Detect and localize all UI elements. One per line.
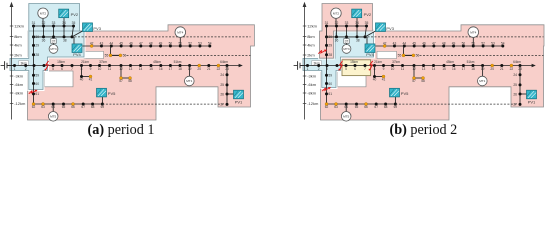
svg-text:66: 66 xyxy=(71,105,75,109)
svg-text:-12km: -12km xyxy=(307,101,319,106)
svg-text:55: 55 xyxy=(398,54,402,58)
svg-text:6: 6 xyxy=(354,67,356,71)
svg-text:59: 59 xyxy=(35,74,39,78)
svg-text:52: 52 xyxy=(188,41,192,45)
svg-text:48: 48 xyxy=(149,41,153,45)
svg-text:MT5: MT5 xyxy=(343,114,349,118)
svg-text:54: 54 xyxy=(208,41,212,45)
svg-text:28: 28 xyxy=(35,53,39,57)
svg-text:49: 49 xyxy=(159,41,163,45)
svg-text:43: 43 xyxy=(393,41,397,45)
svg-text:MT3: MT3 xyxy=(343,47,349,51)
svg-text:45km: 45km xyxy=(446,60,454,64)
svg-text:6: 6 xyxy=(61,67,63,71)
svg-text:24: 24 xyxy=(220,73,224,77)
svg-text:68: 68 xyxy=(91,105,95,109)
svg-text:64km: 64km xyxy=(513,60,521,64)
svg-text:5: 5 xyxy=(52,67,54,71)
svg-text:51: 51 xyxy=(471,41,475,45)
svg-text:35: 35 xyxy=(72,21,76,25)
svg-text:-12km: -12km xyxy=(14,101,26,106)
svg-text:31: 31 xyxy=(32,21,36,25)
svg-text:36: 36 xyxy=(42,39,46,43)
svg-text:64: 64 xyxy=(51,105,55,109)
svg-text:37: 37 xyxy=(52,40,56,44)
svg-text:8km: 8km xyxy=(14,34,22,39)
svg-text:42: 42 xyxy=(90,41,94,45)
svg-text:49: 49 xyxy=(452,41,456,45)
svg-text:44: 44 xyxy=(403,41,407,45)
svg-text:53: 53 xyxy=(198,41,202,45)
svg-text:61: 61 xyxy=(35,92,39,96)
svg-text:30: 30 xyxy=(328,35,332,39)
svg-text:62: 62 xyxy=(325,105,329,109)
svg-text:7: 7 xyxy=(71,67,73,71)
svg-text:69: 69 xyxy=(101,105,105,109)
svg-text:59: 59 xyxy=(328,74,332,78)
svg-text:54: 54 xyxy=(501,41,505,45)
svg-text:55: 55 xyxy=(105,54,109,58)
svg-text:3: 3 xyxy=(33,67,35,71)
svg-text:25: 25 xyxy=(513,83,517,87)
svg-text:34: 34 xyxy=(62,21,66,25)
svg-text:7: 7 xyxy=(364,67,366,71)
svg-text:10: 10 xyxy=(98,67,102,71)
svg-text:2km: 2km xyxy=(14,52,22,57)
svg-text:45: 45 xyxy=(119,41,123,45)
svg-text:31: 31 xyxy=(325,21,329,25)
svg-text:13: 13 xyxy=(422,67,426,71)
svg-text:43: 43 xyxy=(100,41,104,45)
svg-text:69: 69 xyxy=(394,105,398,109)
svg-text:2: 2 xyxy=(318,67,320,71)
svg-text:-6km: -6km xyxy=(307,82,317,87)
svg-text:PV3: PV3 xyxy=(386,26,394,31)
svg-text:67: 67 xyxy=(374,105,378,109)
svg-text:26: 26 xyxy=(513,92,517,96)
svg-text:13: 13 xyxy=(129,67,133,71)
svg-text:45km: 45km xyxy=(153,60,161,64)
svg-text:18: 18 xyxy=(471,67,475,71)
svg-text:MT2: MT2 xyxy=(40,11,46,15)
svg-text:37km: 37km xyxy=(392,60,400,64)
svg-text:PV1: PV1 xyxy=(528,100,536,105)
svg-text:21: 21 xyxy=(500,67,504,71)
svg-text:PV3: PV3 xyxy=(93,26,101,31)
svg-text:27: 27 xyxy=(513,103,517,107)
svg-text:51km: 51km xyxy=(467,60,475,64)
svg-text:15: 15 xyxy=(149,67,153,71)
svg-text:50: 50 xyxy=(169,41,173,45)
svg-text:62: 62 xyxy=(32,105,36,109)
svg-text:MT1: MT1 xyxy=(186,79,192,83)
svg-text:45: 45 xyxy=(412,41,416,45)
svg-text:9: 9 xyxy=(383,67,385,71)
svg-text:57: 57 xyxy=(412,79,416,83)
svg-text:(b) period 2: (b) period 2 xyxy=(390,122,458,138)
svg-text:PV4: PV4 xyxy=(366,52,374,57)
svg-text:60: 60 xyxy=(35,82,39,86)
svg-text:30: 30 xyxy=(35,35,39,39)
svg-text:2: 2 xyxy=(25,67,27,71)
svg-text:47: 47 xyxy=(432,41,436,45)
svg-text:25: 25 xyxy=(220,83,224,87)
svg-text:MT1: MT1 xyxy=(479,79,485,83)
svg-text:38: 38 xyxy=(63,39,67,43)
svg-text:MT4: MT4 xyxy=(177,30,183,34)
svg-text:15km: 15km xyxy=(350,60,358,64)
svg-text:44: 44 xyxy=(110,41,114,45)
svg-text:17: 17 xyxy=(169,67,173,71)
svg-text:34: 34 xyxy=(355,21,359,25)
svg-text:21km: 21km xyxy=(81,60,89,64)
svg-text:37km: 37km xyxy=(99,60,107,64)
svg-text:38: 38 xyxy=(356,39,360,43)
svg-text:PV1: PV1 xyxy=(235,100,243,105)
svg-text:4km: 4km xyxy=(14,42,22,47)
svg-text:36: 36 xyxy=(335,39,339,43)
svg-text:MT3: MT3 xyxy=(50,47,56,51)
svg-text:24: 24 xyxy=(513,73,517,77)
svg-text:50: 50 xyxy=(462,41,466,45)
svg-text:MT5: MT5 xyxy=(50,114,56,118)
svg-text:26: 26 xyxy=(220,92,224,96)
svg-text:65: 65 xyxy=(355,105,359,109)
svg-text:PV4: PV4 xyxy=(73,52,81,57)
svg-text:66: 66 xyxy=(364,105,368,109)
svg-text:-6km: -6km xyxy=(14,82,24,87)
svg-text:40: 40 xyxy=(373,77,377,81)
svg-text:56: 56 xyxy=(123,54,127,58)
svg-text:58: 58 xyxy=(421,79,425,83)
svg-text:33: 33 xyxy=(52,21,56,25)
svg-text:22: 22 xyxy=(217,67,221,71)
svg-text:PV2: PV2 xyxy=(364,12,372,17)
svg-text:56: 56 xyxy=(416,54,420,58)
svg-text:11: 11 xyxy=(108,67,112,71)
svg-text:47: 47 xyxy=(139,41,143,45)
svg-text:20: 20 xyxy=(197,67,201,71)
svg-text:3: 3 xyxy=(326,67,328,71)
svg-text:37: 37 xyxy=(345,40,349,44)
svg-text:61: 61 xyxy=(328,92,332,96)
svg-text:-3km: -3km xyxy=(307,73,317,78)
svg-text:57: 57 xyxy=(119,79,123,83)
svg-text:12km: 12km xyxy=(14,23,24,28)
svg-text:29: 29 xyxy=(328,44,332,48)
svg-text:28: 28 xyxy=(328,53,332,57)
svg-text:33: 33 xyxy=(345,21,349,25)
svg-text:-8km: -8km xyxy=(307,90,317,95)
svg-text:MT4: MT4 xyxy=(470,30,476,34)
svg-text:5: 5 xyxy=(345,67,347,71)
svg-text:51: 51 xyxy=(178,41,182,45)
svg-text:1: 1 xyxy=(14,67,16,71)
svg-text:-8km: -8km xyxy=(14,90,24,95)
svg-text:32: 32 xyxy=(42,21,46,25)
svg-text:48: 48 xyxy=(442,41,446,45)
svg-text:15km: 15km xyxy=(57,60,65,64)
svg-text:14: 14 xyxy=(432,67,436,71)
svg-text:17: 17 xyxy=(462,67,466,71)
svg-text:16: 16 xyxy=(452,67,456,71)
svg-text:63: 63 xyxy=(334,105,338,109)
svg-text:21km: 21km xyxy=(374,60,382,64)
svg-text:68: 68 xyxy=(384,105,388,109)
svg-text:60: 60 xyxy=(328,82,332,86)
svg-text:53: 53 xyxy=(491,41,495,45)
svg-text:64km: 64km xyxy=(220,60,228,64)
svg-text:11: 11 xyxy=(401,67,405,71)
svg-text:MT2: MT2 xyxy=(333,11,339,15)
svg-text:51km: 51km xyxy=(174,60,182,64)
svg-text:1: 1 xyxy=(307,67,309,71)
svg-text:27: 27 xyxy=(220,103,224,107)
svg-text:67: 67 xyxy=(81,105,85,109)
svg-text:-3km: -3km xyxy=(14,73,24,78)
svg-text:32: 32 xyxy=(335,21,339,25)
svg-text:40: 40 xyxy=(80,77,84,81)
svg-text:(a) period 1: (a) period 1 xyxy=(88,122,155,138)
svg-text:9: 9 xyxy=(90,67,92,71)
svg-text:22: 22 xyxy=(510,67,514,71)
svg-text:18: 18 xyxy=(178,67,182,71)
svg-text:41: 41 xyxy=(382,77,386,81)
svg-text:12km: 12km xyxy=(307,23,317,28)
svg-text:41: 41 xyxy=(89,77,93,81)
svg-text:14: 14 xyxy=(139,67,143,71)
svg-text:64: 64 xyxy=(344,105,348,109)
svg-text:58: 58 xyxy=(128,79,132,83)
svg-text:2km: 2km xyxy=(307,52,315,57)
svg-text:10: 10 xyxy=(391,67,395,71)
svg-text:35: 35 xyxy=(365,21,369,25)
svg-text:46: 46 xyxy=(129,41,133,45)
svg-text:4km: 4km xyxy=(307,42,315,47)
svg-text:42: 42 xyxy=(383,41,387,45)
svg-text:65: 65 xyxy=(62,105,66,109)
svg-text:15: 15 xyxy=(442,67,446,71)
svg-text:29: 29 xyxy=(35,44,39,48)
svg-text:16: 16 xyxy=(159,67,163,71)
svg-text:52: 52 xyxy=(481,41,485,45)
svg-text:PV5: PV5 xyxy=(108,91,116,96)
svg-text:21: 21 xyxy=(207,67,211,71)
svg-text:20: 20 xyxy=(490,67,494,71)
svg-text:8km: 8km xyxy=(307,34,315,39)
svg-text:63: 63 xyxy=(41,105,45,109)
svg-text:PV2: PV2 xyxy=(71,12,79,17)
svg-text:PV5: PV5 xyxy=(401,91,409,96)
svg-text:46: 46 xyxy=(422,41,426,45)
